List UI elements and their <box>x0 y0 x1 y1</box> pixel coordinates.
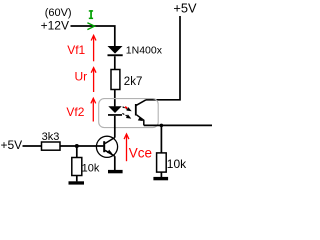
svg-text:Ur: Ur <box>75 70 88 84</box>
wire Q1 emitter to ground <box>114 156 116 170</box>
wire diode to resistor <box>114 56 116 69</box>
wire junction down to R3 <box>76 146 78 158</box>
resistor R1 2k7 <box>111 70 120 90</box>
opto light arrow lower (dashed) <box>122 113 131 118</box>
node junction dot left <box>75 144 79 148</box>
wire resistor to opto LED <box>114 90 116 107</box>
resistor R2 3k3 <box>42 142 61 150</box>
svg-text:Vf2: Vf2 <box>66 105 84 119</box>
resistor R4 10k right <box>157 153 167 172</box>
annotation arrow Ur (red) <box>91 68 96 92</box>
wire +5V right rail <box>146 16 180 100</box>
ground left <box>69 181 85 184</box>
svg-text:+12V: +12V <box>41 18 69 32</box>
node junction dot right <box>160 124 164 128</box>
svg-text:+5V: +5V <box>173 0 197 15</box>
node I current arrow (green) <box>87 23 94 30</box>
opto light arrow upper (dashed) <box>123 107 132 112</box>
svg-text:1N400x: 1N400x <box>126 45 163 57</box>
svg-text:10k: 10k <box>167 157 187 171</box>
red dash on upper light arrow <box>125 107 127 108</box>
wire R2 to Q1 base <box>60 145 103 147</box>
svg-text:Vf1: Vf1 <box>67 43 85 57</box>
wire opto emitter rail to right edge <box>144 124 212 126</box>
resistor R3 10k left <box>72 158 82 176</box>
annotation arrow Vf1 (red) <box>91 35 96 61</box>
ground under Q1 <box>108 170 123 173</box>
opto-coupler U1 box <box>99 99 159 128</box>
diode D1 1N400x <box>108 46 123 56</box>
opto LED <box>108 106 122 116</box>
svg-text:Vce: Vce <box>129 146 152 161</box>
svg-text:10k: 10k <box>82 162 100 174</box>
svg-text:+5V: +5V <box>1 138 23 152</box>
svg-text:3k3: 3k3 <box>42 131 60 143</box>
wire R3 to ground <box>76 176 78 182</box>
wire +5V to R2 <box>23 145 42 147</box>
wire LED cathode down to Q1 <box>114 116 116 138</box>
label I (green) <box>89 10 93 19</box>
wire +12V horizontal and down to diode <box>71 26 115 47</box>
wire R4 to ground <box>160 172 162 177</box>
annotation arrow Vf2 (red) <box>91 98 96 121</box>
opto phototransistor <box>135 100 146 126</box>
svg-text:(60V): (60V) <box>45 7 72 19</box>
svg-text:2k7: 2k7 <box>124 76 143 88</box>
wire junction down to R4 <box>160 125 162 152</box>
transistor Q1 <box>96 136 117 157</box>
annotation arrow Vce (red) <box>124 134 129 161</box>
ground right <box>153 177 168 180</box>
